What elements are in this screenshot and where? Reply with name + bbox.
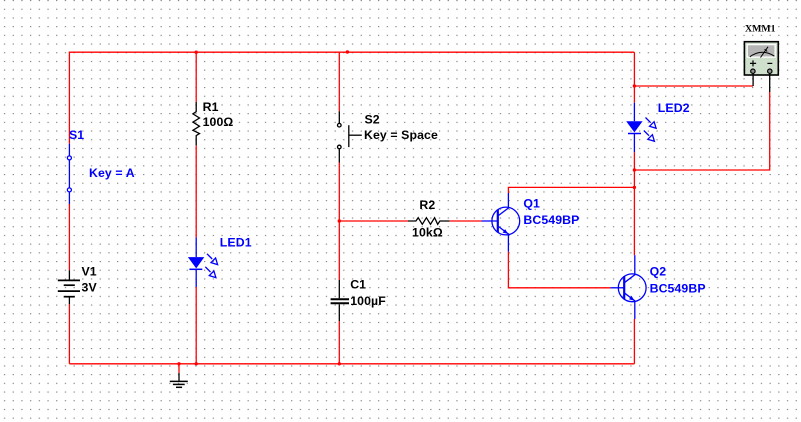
wire Q2 emitter to bottom [633,319,635,364]
junction node XMM plus [633,84,636,87]
junction node XMM minus [633,168,636,171]
svg-text:R1: R1 [203,100,219,114]
LED LED1 [188,237,218,287]
svg-text:BC549BP: BC549BP [650,281,706,295]
svg-text:LED2: LED2 [658,101,690,115]
battery V1 [58,270,80,304]
wire ground stub [178,364,180,373]
switch S2 [338,111,362,162]
svg-text:S1: S1 [69,128,84,142]
resistor R1 [193,102,200,145]
svg-text:Q1: Q1 [523,197,540,211]
wire R1 branch top [195,52,197,102]
junction node R1 top [195,51,198,54]
svg-text:S2: S2 [365,112,380,126]
wire LED1 to bottom [195,287,197,364]
wire XMM1 minus [634,92,769,170]
junction node LED1 bottom [195,362,198,365]
wire left rail bottom segment [68,304,70,364]
junction node Q1 collector [633,186,636,189]
LED LED2 [626,103,656,152]
wire S2 to C1 [338,163,340,281]
wire top rail [69,52,634,144]
junction node C1 bottom [338,362,341,365]
wire S2 branch top [338,52,340,111]
capacitor C1 [331,280,349,321]
junction node R2 branch [338,219,341,222]
wire left rail middle segment [68,204,70,270]
wire LED2 branch top [633,52,635,103]
wire bottom rail [69,363,634,365]
wire LED2 to Q2 collector [633,152,635,255]
svg-text:C1: C1 [350,278,366,292]
switch S1 [67,144,71,204]
resistor R2 [408,218,449,225]
wire C1 to bottom [338,321,340,364]
wire Q1 emitter to Q2 base [508,252,610,288]
wire node to R2 [339,220,408,222]
junction node ground [177,362,180,365]
wire XMM1 plus [634,85,753,87]
svg-text:Key = Space: Key = Space [364,128,438,142]
svg-text:XMM1: XMM1 [745,24,776,35]
multimeter XMM1 [744,42,778,92]
wire Q1 collector to LED2 net [508,187,634,193]
svg-text:3V: 3V [82,281,98,295]
svg-text:10kΩ: 10kΩ [412,225,443,239]
svg-text:V1: V1 [82,265,97,279]
svg-text:BC549BP: BC549BP [523,213,579,227]
transistor Q2 [611,255,647,319]
svg-text:100Ω: 100Ω [203,115,234,129]
svg-text:Q2: Q2 [650,264,667,278]
svg-text:R2: R2 [419,198,435,212]
ground [170,373,188,387]
wire R2 to Q1 base [449,220,481,222]
junction node top offset [346,50,349,53]
svg-text:LED1: LED1 [220,236,252,250]
svg-text:Key = A: Key = A [89,166,135,180]
transistor Q1 [482,193,520,252]
svg-text:100µF: 100µF [350,294,386,308]
wire R1 to LED1 [195,145,197,237]
